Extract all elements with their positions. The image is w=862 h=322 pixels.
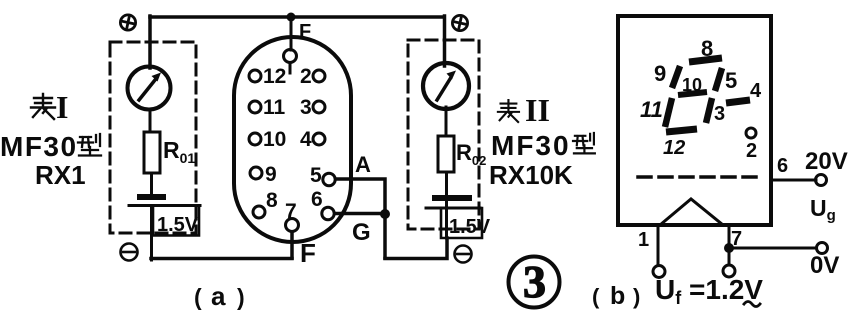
- meter M2: [423, 63, 469, 109]
- node G junction dot: [380, 209, 390, 219]
- svg-text:1.5V: 1.5V: [449, 216, 491, 238]
- text 表 II: [498, 100, 519, 122]
- IC box (b): [618, 16, 771, 225]
- svg-text:8: 8: [266, 189, 278, 212]
- pin 11: [249, 101, 261, 113]
- svg-text:4: 4: [750, 80, 762, 102]
- svg-text:12: 12: [263, 65, 286, 88]
- svg-text:0V: 0V: [810, 252, 839, 279]
- segment 12 bottom bar: [666, 129, 697, 132]
- svg-text:5: 5: [725, 68, 737, 93]
- node pin7 junction dot: [724, 243, 734, 253]
- svg-text:(a): (a): [194, 281, 245, 311]
- svg-text:11: 11: [640, 97, 663, 122]
- svg-text:10: 10: [263, 128, 286, 151]
- svg-text:3: 3: [523, 256, 546, 307]
- terminal minus left: [121, 244, 138, 261]
- terminal plus right: [452, 15, 467, 30]
- terminal 0V: [817, 243, 828, 254]
- segment 11 lower-left: [665, 98, 672, 127]
- wire left meter drop: [148, 16, 152, 68]
- svg-text:12: 12: [663, 137, 685, 159]
- filament triangle: [660, 199, 723, 225]
- wire G to right battery: [385, 238, 447, 259]
- dashed box meter II: [408, 40, 479, 229]
- svg-text:2: 2: [746, 140, 757, 162]
- meter M2 needle: [437, 79, 450, 100]
- svg-text:9: 9: [654, 61, 666, 86]
- segment 2 decimal point: [746, 128, 756, 138]
- segment 8 top bar: [689, 58, 722, 62]
- svg-text:3: 3: [714, 103, 725, 125]
- segment 5 upper-right: [715, 68, 722, 91]
- wire pin5 to node A: [336, 179, 385, 258]
- pin 8: [253, 206, 265, 218]
- wire battery to bottom: [150, 186, 153, 260]
- wire meter II to R02: [445, 107, 448, 136]
- svg-text:9: 9: [265, 163, 277, 186]
- segment 10 middle bar: [678, 92, 707, 95]
- wire top bus F: [150, 15, 444, 19]
- svg-text:2: 2: [300, 65, 312, 88]
- svg-text:G: G: [352, 219, 371, 246]
- svg-text:MF30: MF30: [491, 130, 571, 161]
- wire F to socket top pin: [290, 17, 293, 50]
- text 型 right: [573, 133, 595, 153]
- svg-text:20V: 20V: [805, 148, 848, 175]
- segment 4 mid-right bar: [726, 100, 750, 103]
- svg-text:4: 4: [300, 128, 312, 151]
- svg-text:5: 5: [310, 164, 322, 187]
- node F junction dot: [287, 13, 296, 22]
- svg-text:RX1: RX1: [35, 160, 86, 190]
- svg-text:11: 11: [263, 96, 286, 119]
- pin 9: [250, 167, 262, 179]
- wire bottom F return: [151, 257, 292, 261]
- meter M1: [128, 67, 171, 110]
- svg-text:RX10K: RX10K: [489, 160, 573, 190]
- terminal pin1: [653, 266, 665, 278]
- svg-text:II: II: [525, 92, 550, 128]
- svg-text:MF30: MF30: [0, 131, 78, 162]
- svg-text:10: 10: [682, 75, 702, 95]
- pin 1 lead: [657, 227, 660, 265]
- pin 12: [249, 70, 261, 82]
- battery B2 plate long: [426, 207, 480, 210]
- figure number 3 circled: [509, 257, 560, 308]
- wire R02 to battery: [445, 172, 448, 238]
- text 表 I: [31, 94, 55, 119]
- tube socket outline: [234, 37, 351, 242]
- wire 0V: [729, 247, 816, 250]
- svg-text:3: 3: [300, 96, 312, 119]
- pin 6 lead: [771, 179, 816, 182]
- terminal minus right: [455, 246, 472, 263]
- resistor R01: [144, 132, 160, 173]
- battery B2 label box 1.5V: [441, 208, 482, 238]
- svg-text:6: 6: [311, 188, 323, 211]
- segment 9 upper-left: [672, 66, 680, 88]
- terminal 20V: [816, 175, 827, 186]
- AC tilde under V: [744, 302, 760, 307]
- battery B1 plate long: [129, 204, 200, 207]
- svg-text:1.5V: 1.5V: [157, 214, 199, 236]
- wire pin7 to bottom F: [290, 232, 294, 258]
- svg-text:(b): (b): [592, 282, 640, 310]
- label meter I name: [0, 89, 101, 190]
- battery B2 plate short: [435, 195, 469, 201]
- svg-text:6: 6: [777, 155, 788, 177]
- text 型: [78, 134, 101, 156]
- svg-text:1: 1: [638, 229, 649, 251]
- resistor R02: [438, 136, 454, 172]
- svg-text:F: F: [300, 238, 316, 268]
- dashed box meter I: [110, 42, 196, 233]
- segment 3 lower-right: [706, 98, 712, 123]
- terminal pin7: [723, 265, 735, 277]
- dashed grid line: [638, 175, 764, 179]
- socket pin top (F): [284, 50, 297, 63]
- wire meter I to R01: [149, 109, 152, 132]
- wire R01 to battery: [150, 173, 153, 186]
- battery B1 plate short: [140, 194, 163, 200]
- pin 7 lead: [728, 227, 731, 264]
- svg-text:8: 8: [701, 36, 713, 61]
- svg-text:A: A: [355, 152, 371, 177]
- svg-text:I: I: [56, 89, 68, 125]
- pin 10: [249, 133, 261, 145]
- wire pin6 to node G: [335, 212, 385, 216]
- meter M1 needle: [139, 80, 155, 100]
- battery B1 label box 1.5V: [153, 206, 199, 236]
- wire right meter drop: [443, 16, 447, 66]
- label meter II name: [489, 92, 595, 190]
- terminal plus left: [120, 15, 135, 30]
